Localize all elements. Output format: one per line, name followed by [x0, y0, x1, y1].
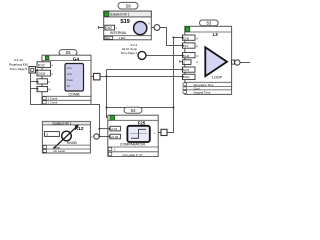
- input box 3 of L3 (pin Q): [183, 53, 196, 58]
- parameter rows of G4: [42, 96, 91, 100]
- node: S19 output monitor circle: [154, 25, 160, 31]
- svg-text:S4: S4: [130, 108, 136, 113]
- svg-text:From Page 2: From Page 2: [121, 51, 138, 55]
- input box 2 of F25: [110, 134, 120, 139]
- svg-text:I/1V: I/1V: [183, 44, 188, 48]
- node: L3 output monitor circle: [235, 60, 240, 65]
- input box 5 of L3: [183, 67, 196, 72]
- wire: S19 output to L3 input P: [151, 28, 182, 46]
- svg-text:Isolated Htr 1: Isolated Htr 1: [110, 13, 130, 17]
- input box 4 of L3 (pin U): [183, 60, 192, 65]
- node: K12 output monitor circle: [94, 134, 99, 139]
- svg-text:F25: F25: [138, 121, 146, 126]
- node: wire attach dots on L3 inputs: [182, 37, 184, 78]
- wire: left bus from off-page connector down and staircase to F25 input 1: [31, 70, 111, 137]
- node: junction dots at F25 inputs and riser: [108, 128, 110, 130]
- svg-text:2 in: 2 in: [67, 66, 72, 70]
- svg-text:S19: S19: [120, 19, 130, 25]
- input box 2 of L3 (pin P): [183, 43, 196, 48]
- parameter rows of L3: [185, 82, 232, 90]
- logic symbol of G4: [65, 64, 84, 92]
- node: wire attach dots on G4 inputs: [36, 69, 38, 89]
- svg-text:CH2: CH2: [183, 36, 189, 40]
- svg-text:6-1-12: 6-1-12: [14, 58, 23, 62]
- parameter row of S19: Osc 1 kHz: [104, 35, 152, 37]
- input box 3 of G4: [37, 79, 48, 84]
- node NB1: small wiring node box right of G4: [94, 73, 101, 80]
- svg-text:G4Q: G4Q: [183, 75, 190, 79]
- svg-text:V: V: [148, 22, 150, 26]
- knob symbol of K12: [62, 131, 72, 141]
- wire: L3 output to right edge: [235, 62, 251, 64]
- pill S5 (tag above G4): [59, 50, 77, 56]
- input box 1 of L3 (pin A): [183, 35, 196, 40]
- svg-text:P: P: [196, 44, 198, 48]
- svg-text:On Label F I P: On Label F I P: [123, 153, 143, 157]
- block S19 (internal oscillator): [99, 11, 152, 40]
- off-page connector: Regelung EIN from Page 5: [9, 58, 35, 73]
- input box 1 of F25: [110, 126, 120, 131]
- block L3 (LOOP): [180, 26, 235, 94]
- wire: G4 output net to L3 inputs and F25: [91, 38, 183, 133]
- svg-text:G4: G4: [73, 56, 80, 61]
- block F25 (COMPARATOR): [99, 115, 159, 157]
- svg-text:Integral Time: Integral Time: [194, 90, 211, 94]
- input box CH2 of S19: [105, 25, 115, 30]
- svg-text:Isolated Htr 1: Isolated Htr 1: [53, 121, 72, 125]
- parameter rows of F25: [108, 147, 158, 152]
- svg-text:S9: S9: [125, 4, 131, 9]
- svg-text:1 Comb: 1 Comb: [48, 101, 58, 105]
- svg-text:S5: S5: [65, 50, 71, 55]
- pill S9 (tag above S19): [118, 2, 138, 9]
- svg-text:6 an: 6 an: [67, 78, 73, 82]
- node NB2: small wiring node box right of F25: [161, 129, 167, 135]
- svg-text:E: E: [183, 61, 185, 65]
- svg-text:X: X: [51, 63, 53, 67]
- pill S3 (tag above L3): [200, 20, 219, 26]
- parameter rows of K12: [42, 145, 90, 149]
- knob S19: [134, 22, 147, 35]
- svg-text:CH2: CH2: [183, 54, 189, 58]
- wire: stub left of S19: [99, 26, 104, 29]
- svg-text:V: V: [51, 72, 53, 76]
- svg-text:KNOB: KNOB: [67, 141, 77, 145]
- svg-text:Osc: Osc: [105, 36, 111, 40]
- svg-text:+0.02: +0.02: [111, 135, 119, 139]
- svg-text:-0.01: -0.01: [111, 127, 118, 131]
- svg-text:A: A: [196, 37, 198, 41]
- off-page connector: Htr M Temp from Page 2: [121, 43, 146, 60]
- pill S4 (tag above F25): [124, 107, 142, 113]
- svg-text:L3: L3: [213, 32, 219, 37]
- input box 6 of L3: [183, 74, 196, 79]
- output pin of L3: [232, 60, 235, 64]
- svg-text:LOOP: LOOP: [212, 75, 223, 79]
- svg-text:C/O2: C/O2: [38, 72, 46, 76]
- svg-text:1 kHz: 1 kHz: [119, 36, 127, 40]
- comparator icon: [127, 126, 149, 142]
- svg-text:4 or: 4 or: [67, 72, 72, 76]
- svg-text:+0.5: +0.5: [183, 68, 189, 72]
- svg-text:-1: -1: [45, 132, 48, 136]
- input box of K12: [44, 132, 59, 137]
- input box 1 of G4: [37, 62, 51, 68]
- svg-text:From Page 5: From Page 5: [10, 67, 28, 71]
- block K12 (KNOB): [42, 121, 93, 153]
- svg-text:COMB: COMB: [68, 92, 80, 96]
- svg-text:U: U: [196, 60, 198, 64]
- svg-text:CH2: CH2: [106, 26, 113, 30]
- input box 2 of G4: [37, 70, 51, 76]
- input box 4 of G4: [37, 87, 48, 92]
- svg-text:COMPARATOR: COMPARATOR: [120, 143, 146, 147]
- block G4 (COMB logic): [36, 55, 91, 104]
- wire: Htr M Temp connector to L3 input Q: [146, 55, 182, 57]
- svg-text:S3: S3: [206, 21, 212, 26]
- node: junction dots: [106, 37, 175, 109]
- svg-text:INTERNAL: INTERNAL: [110, 31, 127, 35]
- svg-text:On Level: On Level: [53, 149, 65, 153]
- wire: K12 output to F25 input 2: [99, 136, 110, 138]
- amplifier triangle of L3: [205, 47, 227, 76]
- svg-text:D1/2: D1/2: [38, 63, 45, 67]
